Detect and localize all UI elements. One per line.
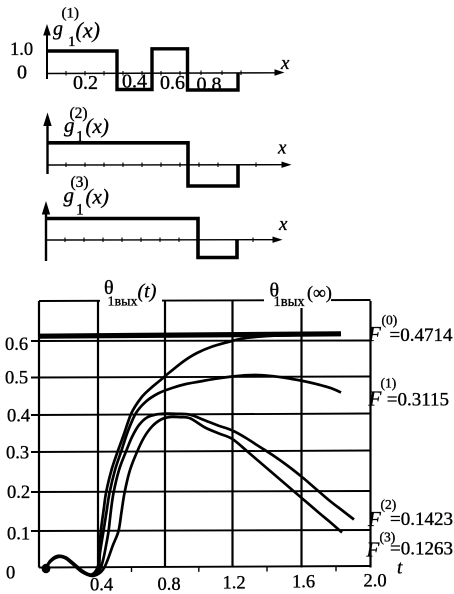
svg-text:(x): (x) [86, 114, 109, 138]
svg-text:1: 1 [76, 202, 84, 219]
plot3 x-axis arrowhead [273, 237, 283, 243]
svg-text:1.6: 1.6 [292, 573, 315, 593]
svg-text:0.6: 0.6 [160, 72, 185, 94]
plot3 waveform g1(3) [46, 219, 237, 258]
curve F3 [45, 417, 342, 576]
svg-text:(x): (x) [86, 185, 109, 209]
curves start blob [42, 564, 51, 574]
svg-text:F: F [367, 507, 381, 531]
asymptote thick line theta(inf) [39, 334, 341, 336]
svg-text:=0.1423: =0.1423 [390, 509, 453, 530]
svg-text:=0.1263: =0.1263 [390, 539, 453, 560]
svg-text:0.5: 0.5 [5, 368, 28, 388]
svg-text:2.0: 2.0 [364, 571, 387, 591]
curve F2 [45, 414, 354, 576]
chart bottom minor ticks [132, 566, 337, 572]
svg-text:F: F [366, 537, 380, 561]
chart grid horizontals [31, 300, 371, 568]
plot3 x-axis ticks [65, 238, 253, 243]
svg-text:x: x [277, 138, 287, 159]
plot1 waveform g1(1) [47, 49, 238, 90]
plot3 y-axis arrowhead [42, 201, 50, 215]
svg-text:F: F [367, 322, 381, 346]
plot1 y-axis [46, 32, 48, 79]
svg-text:=0.4714: =0.4714 [390, 325, 453, 346]
curve F0 [45, 335, 341, 575]
svg-text:1.0: 1.0 [10, 40, 33, 60]
white gaps in top border for theta labels [100, 278, 162, 308]
svg-text:0.8: 0.8 [197, 73, 222, 95]
svg-text:1.2: 1.2 [223, 574, 246, 594]
plot2 x-axis arrowhead [282, 162, 292, 168]
svg-text:0.2: 0.2 [7, 483, 30, 503]
plot2 x-axis ticks [66, 163, 256, 168]
svg-text:0.8: 0.8 [158, 575, 181, 594]
plot3 y-axis [45, 210, 47, 261]
svg-text:(t): (t) [138, 281, 157, 303]
svg-text:0: 0 [17, 61, 27, 83]
plot3 x-axis [46, 239, 278, 241]
plot2 waveform g1(2) [48, 143, 239, 186]
svg-text:1вых: 1вых [274, 294, 306, 310]
svg-text:t: t [397, 558, 403, 579]
plot1 y-axis arrowhead [43, 24, 51, 36]
svg-text:0.2: 0.2 [73, 72, 98, 94]
svg-text:0.6: 0.6 [5, 335, 28, 355]
svg-text:x: x [278, 214, 288, 235]
svg-text:1: 1 [76, 129, 84, 146]
plot2 y-axis [46, 122, 48, 174]
svg-text:(x): (x) [76, 18, 100, 43]
chart grid verticals [39, 301, 371, 568]
svg-text:1: 1 [68, 34, 76, 50]
svg-text:(1): (1) [381, 376, 397, 391]
svg-text:0.3: 0.3 [6, 444, 29, 464]
svg-text:0.1: 0.1 [7, 525, 30, 545]
curve F1 [45, 375, 341, 575]
plot2 y-axis arrowhead [43, 113, 51, 127]
svg-text:0.4: 0.4 [122, 71, 147, 93]
svg-text:F: F [368, 386, 382, 410]
svg-text:1вых: 1вых [108, 295, 138, 310]
svg-text:=0.3115: =0.3115 [387, 389, 449, 410]
svg-text:0.4: 0.4 [7, 407, 30, 427]
svg-text:0.4: 0.4 [90, 576, 113, 594]
plot1 x-axis arrowhead [275, 69, 285, 75]
svg-text:x: x [280, 53, 290, 74]
plot1 x-axis ticks [66, 71, 241, 76]
svg-text:(∞): (∞) [307, 283, 332, 304]
plot2 x-axis [48, 164, 288, 166]
svg-text:0: 0 [6, 563, 15, 583]
plot1 x-axis [47, 72, 280, 75]
